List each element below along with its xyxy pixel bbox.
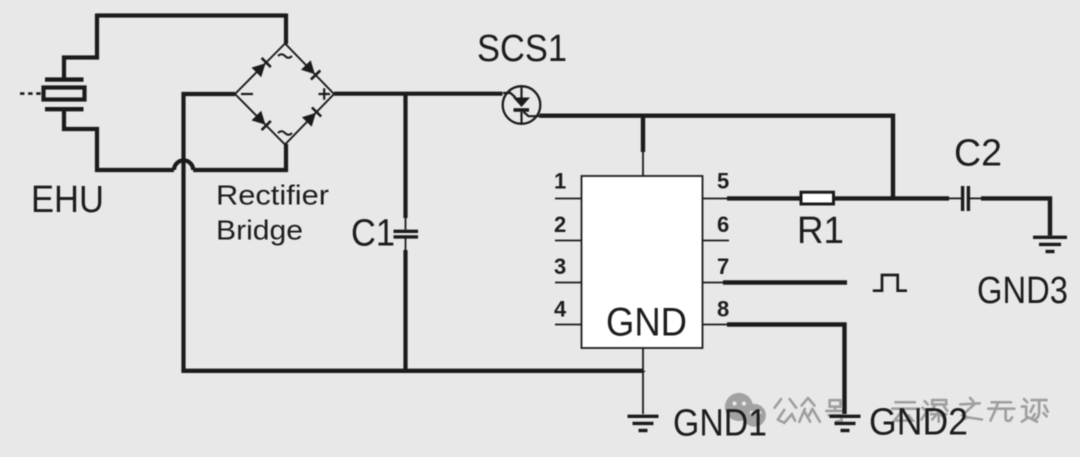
svg-text:8: 8 (717, 297, 729, 322)
IC pin stubs right (703, 199, 730, 325)
svg-text:R1: R1 (797, 210, 844, 252)
svg-text:SCS1: SCS1 (477, 28, 567, 70)
svg-text:GND1: GND1 (673, 403, 767, 445)
svg-text:GND3: GND3 (977, 270, 1068, 312)
label C1 (351, 213, 395, 255)
EHU crystal: bottom plate (45, 107, 84, 111)
云 (892, 402, 919, 420)
众 (799, 398, 820, 422)
号 (826, 400, 843, 422)
之 (960, 398, 982, 420)
EHU crystal: dashed lead (20, 92, 41, 95)
svg-text:Bridge: Bridge (216, 215, 303, 246)
ground GND1 symbol (628, 416, 659, 430)
svg-text:C2: C2 (954, 133, 1002, 175)
label GND1 (673, 403, 767, 445)
wire: C2 to GND3 (981, 196, 1050, 235)
wire: IC pin top feed (641, 116, 645, 152)
bridge ~ mark bottom (278, 131, 292, 135)
bridge diode D-bottomright (bottom vertex -> right vertex) (302, 113, 316, 127)
wire: junction down to pin5 net (891, 114, 895, 199)
ground GND2 symbol (830, 416, 861, 430)
watermark text 公众号 (775, 398, 844, 423)
无 (988, 402, 1014, 421)
迹 (1022, 399, 1048, 422)
watermark text 云深之无迹 (892, 398, 1048, 422)
wire: bridge left vertex to ground rail (vertical at 183.5) (184, 92, 236, 370)
wire: pin8 to GND2 (727, 322, 845, 414)
ground GND3 symbol (1033, 237, 1067, 251)
svg-text:2: 2 (554, 212, 566, 237)
pulse waveform symbol (873, 275, 907, 291)
svg-text:5: 5 (717, 169, 729, 194)
label GND2 (869, 402, 968, 444)
svg-text:1: 1 (554, 169, 566, 194)
pin number 8 (717, 297, 729, 322)
svg-text:Rectifier: Rectifier (216, 180, 329, 211)
label C2 (954, 133, 1002, 175)
svg-text:EHU: EHU (31, 179, 104, 221)
pin number 1 (554, 169, 566, 194)
resistor R1 body (801, 192, 834, 204)
IC pin stubs left (555, 199, 582, 325)
wire: R1 to C2 (834, 196, 950, 200)
svg-text:C1: C1 (351, 213, 395, 255)
pin number 6 (717, 212, 729, 237)
watermark wechat icon (725, 393, 766, 427)
wire: ground rail (181, 371, 643, 372)
EHU crystal: body box (44, 88, 85, 100)
label GND inside IC (606, 301, 687, 345)
bridge minus mark (241, 93, 253, 95)
label R1 (797, 210, 844, 252)
wire: pin7 trigger line (723, 280, 847, 284)
pin number 3 (554, 254, 566, 279)
wire: SCS1 output to R1 junction (540, 113, 894, 117)
svg-text:3: 3 (554, 254, 566, 279)
label GND3 (977, 270, 1068, 312)
wire: IC bottom to GND1 (642, 348, 644, 414)
capacitor C2 (961, 186, 964, 211)
bridge diode D-topleft (left vertex -> top vertex) (252, 63, 266, 77)
label SCS1 (477, 28, 567, 70)
EHU crystal: top plate (45, 77, 84, 81)
svg-text:GND2: GND2 (869, 402, 968, 444)
bridge diode D-bottomleft (left vertex -> bottom vertex) (252, 111, 266, 125)
pin number 2 (554, 212, 566, 237)
svg-text:6: 6 (717, 212, 729, 237)
label Rectifier Bridge (216, 180, 329, 211)
wire: bridge right vertex to SCS1 (334, 92, 503, 96)
bridge diode D-topright (top vertex -> right vertex) (301, 60, 315, 74)
wire: EHU bottom to bridge bottom (with hop) (64, 111, 288, 172)
wire: top bus from EHU top to bridge top (64, 14, 286, 79)
pin number 7 (717, 254, 729, 279)
svg-text:4: 4 (554, 297, 567, 322)
svg-text:GND: GND (606, 301, 687, 345)
svg-text:7: 7 (717, 254, 729, 279)
深 (921, 400, 947, 422)
IC U1 box (582, 176, 703, 348)
capacitor C1 (394, 94, 419, 371)
bridge plus mark (319, 88, 331, 100)
rectifier bridge diamond (235, 44, 334, 145)
label EHU (31, 179, 104, 221)
pin number 4 (554, 297, 567, 322)
公 (775, 399, 797, 423)
wire: pin5 to R1 (727, 196, 801, 200)
bridge ~ mark top (278, 54, 292, 58)
pin number 5 (717, 169, 729, 194)
SCS1 thyristor (503, 86, 541, 124)
